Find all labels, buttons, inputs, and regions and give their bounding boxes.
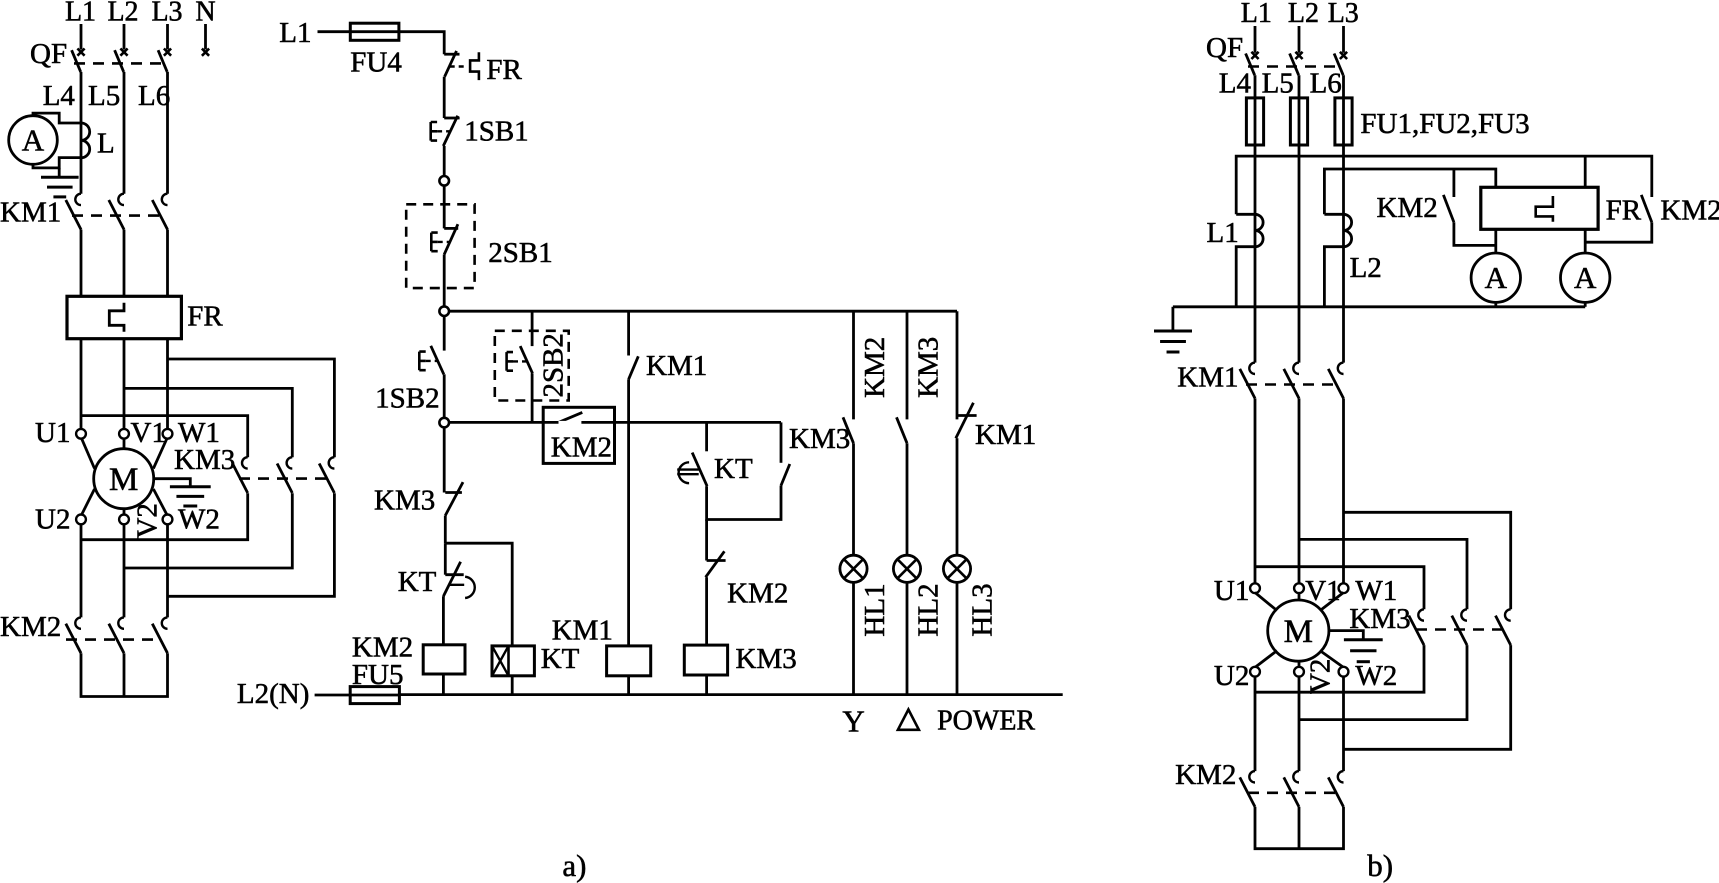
wire bus1 to lamp column 3 [956,311,959,419]
breaker QF pole 2 [120,49,127,56]
svg-text:KM2: KM2 [1377,192,1438,224]
svg-text:KM2: KM2 [551,432,612,464]
contact KT NC delayed-opening [445,573,463,576]
ground (ammeter circuit) [41,176,79,179]
svg-text:KT: KT [398,566,437,598]
contactor KM2 pole 3 [162,617,168,628]
wire V2 to motor [123,509,126,516]
wire L6 segment [166,72,169,194]
terminal U2 (b) [1250,667,1260,677]
wire V1 to motor (b) [1298,593,1301,601]
wire FR to V1 [123,339,126,430]
wire CT L1 bottom [1236,247,1255,307]
contactor KM1 pole 2 [118,194,124,205]
node terminal below 2SB1 [439,306,449,316]
contact FR NC linkage dashed [450,65,468,67]
coil KM3 [684,645,727,675]
wire KM1 pole1 to U1 (b) [1254,398,1257,584]
svg-text:KM3: KM3 [913,337,945,398]
wire U1 to motor (b) [1255,593,1277,611]
wire CT L2 bottom [1324,247,1343,307]
wire FR contact to 1SB1 [443,77,446,118]
contact KT NC delay bars [448,584,464,586]
svg-text:L3: L3 [151,0,182,28]
svg-text:b): b) [1367,848,1393,883]
control bus 2 [449,421,781,424]
svg-text:Y: Y [842,704,864,739]
wire ammeter 2 to bottom bus [1584,302,1587,306]
contactor KM2 pole 2 [118,617,124,628]
contactor KM3 linkage dashed (b) [1416,628,1506,631]
contact KM2 self-hold gap mask [559,421,582,424]
pushbutton 1SB1 actuator [429,122,432,141]
wire QF to fuse FU3 [1342,75,1345,98]
wire L4 segment [80,72,83,194]
wire 1SB1 to node [443,146,446,176]
svg-text:L1: L1 [1207,217,1239,249]
control bottom bus [399,693,1062,696]
svg-text:U1: U1 [1214,575,1249,607]
contactor KM1 pole 3 (b) [1338,363,1344,374]
contactor KM1 pole 1 [75,194,81,205]
delta symbol [898,710,919,730]
wire U1 branch to KM3 pole1 [81,416,248,458]
svg-text:QF: QF [30,38,67,70]
svg-text:A: A [1574,260,1597,295]
svg-text:N: N [195,0,215,28]
svg-text:1SB1: 1SB1 [464,116,528,148]
wire KM1 coil to bus [627,676,630,695]
wire bus1 T to FR box [1584,156,1587,187]
ammeter A2 (b) [1561,253,1610,302]
svg-text:V1: V1 [131,417,166,449]
breaker QF pole N x-mark [202,49,209,56]
svg-text:L1: L1 [1241,0,1272,29]
svg-text:KM1: KM1 [646,350,707,382]
measurement bottom bus (b) [1173,305,1585,308]
svg-text:a): a) [562,848,586,883]
wire node2 to 1SB2 [443,316,446,351]
wire KM2 left to ammeter1 wire [1454,222,1496,245]
wire KM2 star point [81,653,168,696]
breaker QF linkage dashed (b) [1248,65,1338,68]
contact FR NC (control) [444,53,459,56]
wire W1 to motor (b) [1320,593,1344,611]
svg-text:KM1: KM1 [1177,362,1238,394]
wire KM2 right to ammeter2 wire [1585,222,1652,242]
contactor KM1 pole 3 [162,194,168,205]
wire L2 into QF (b) [1298,26,1301,53]
wire KM1 contact to coil [627,379,630,646]
wire 2SB2 to bus2 [531,373,534,422]
pushbutton 1SB1 NC [444,117,459,120]
wire CT L2 top [1324,213,1343,216]
wire bus1 to 2SB2 [531,311,534,346]
pushbutton 2SB2 actuator [505,352,508,371]
wire contact to lamp HL3 [956,438,959,555]
wire KM3 pole2 to V2 line [124,493,292,568]
svg-text:HL2: HL2 [913,583,945,636]
CT L1 winding (b) [1255,214,1263,246]
wire U2 to motor [82,489,95,515]
contact KM2 NO (lamp column 1) [843,417,854,443]
wire terminal row2 to KM2 pole 1 (b) [1254,676,1257,771]
svg-text:KM2: KM2 [1660,195,1719,227]
wire bus1 to lamp column 2 [906,311,909,419]
contact KM2 bypass right NO [1641,195,1652,222]
wire bus2 corner to KM3 NO [780,422,783,462]
pushbutton 2SB2 NO contact [520,346,532,373]
contact KM3 NO (mid) [781,464,790,486]
wire lamp HL3 to bottom bus [956,582,959,694]
control bus 1 [449,310,957,313]
contactor KM2 pole 1 (b) [1249,771,1255,782]
contactor KM3 linkage dashed [239,477,330,480]
ammeter A1 (b) [1471,253,1520,302]
contact KT NO delayed-closing [692,453,707,487]
wire U2 to KM2 pole1 [80,524,83,618]
contact KT NO delay bars [677,470,699,475]
wire contact to lamp HL1 [852,443,855,555]
wire terminal row2 to KM2 pole 3 (b) [1342,676,1345,771]
wire U1 branch to KM3 pole1 (b) [1255,567,1424,610]
wire ammeter 1 to bottom bus [1494,302,1497,306]
svg-text:FR: FR [486,54,522,86]
svg-text:KM2: KM2 [727,578,788,610]
wire KM2 star bar mid (b) [1298,807,1301,849]
wire V1 branch to KM3 pole2 (b) [1299,539,1467,609]
wire KM2 NC to KM3 coil [705,577,708,645]
pushbutton 1SB2 actuator [418,352,421,371]
wire 2SB1 to node2 [443,254,446,306]
svg-text:HL1: HL1 [859,583,891,636]
wire KM2 coil to bus [442,674,445,695]
wire fuse FU2 to KM1 (b) [1298,145,1301,363]
wire KM3 pole3 to W2 line [168,493,335,596]
svg-text:L3: L3 [1328,0,1359,29]
breaker QF linkage dashed [74,62,165,65]
wire KM1 pole3 to W1 (b) [1342,398,1345,584]
indicator lamp HL1 [840,555,867,582]
svg-text:M: M [109,462,138,498]
wire KM2 star point (b) [1255,807,1344,849]
svg-text:KT: KT [714,453,753,485]
contact KM1 NO (control) [629,356,639,379]
svg-text:U1: U1 [35,417,70,449]
svg-text:L4: L4 [43,80,76,112]
indicator lamp HL3 [943,555,970,582]
svg-text:L5: L5 [1262,68,1294,100]
contact KT NC delay cup [465,577,475,598]
breaker QF pole 3 [164,49,171,56]
svg-text:L2: L2 [107,0,138,28]
wire FR to U1 [80,339,83,430]
fuse FU1 [1254,98,1257,145]
contactor KM1 linkage dashed [72,214,161,217]
svg-text:L2: L2 [1288,0,1319,29]
contact KM2 NC (mid) [707,559,726,562]
wire bus2 to KM2 left [1453,169,1456,197]
terminal W2 [163,515,173,525]
terminal V1 (b) [1294,583,1304,593]
svg-text:KM2: KM2 [859,337,891,398]
coil KT [492,646,534,676]
measurement bus 1 (b) [1236,156,1652,214]
svg-text:KM2: KM2 [0,611,61,643]
wire KM3 pole1 to U2 line [81,493,248,539]
wire QF to fuse FU2 [1298,75,1301,98]
wire KM3 pole1 to U2 (b) [1255,645,1424,692]
svg-text:1SB2: 1SB2 [375,383,439,415]
wire motor frame to ground (b) [1329,631,1363,640]
svg-text:V2: V2 [1305,659,1337,694]
svg-text:L6: L6 [1310,68,1342,100]
wire V1 to motor [123,438,126,449]
wire branch to KT coil column [445,543,512,646]
svg-text:L2(N): L2(N) [237,678,309,710]
wire FR box to ammeter 2 [1584,229,1587,253]
svg-text:KT: KT [541,643,580,675]
terminal U2 [76,515,86,525]
wire KM2 star bar mid [123,653,126,696]
wire FR box to ammeter 1 [1494,229,1497,253]
wire KM1 pole1 to FR [80,230,83,297]
wire FU4 to FR contact [399,32,444,55]
svg-text:W2: W2 [1355,660,1397,692]
contactor KM3 pole 2 [287,457,293,468]
svg-text:L2: L2 [1350,252,1382,284]
wire KM1 pole3 to FR [166,230,169,297]
wire terminal row2 to KM2 pole 2 (b) [1298,676,1301,771]
svg-text:L: L [97,128,115,160]
svg-text:KM1: KM1 [552,615,613,647]
motor M (b) [1268,600,1329,661]
pushbutton 2SB1 NC contact [444,227,458,230]
breaker QF pole 1 (b) [1251,52,1258,59]
wire CT L1 top [1236,213,1255,216]
contactor KM3 pole 1 [242,457,248,468]
wire V1 branch to KM3 pole2 [124,388,292,457]
svg-text:L6: L6 [138,80,170,112]
wire node3 to KM3 NC [443,427,446,492]
contactor KM2 pole 1 [75,617,81,628]
wire bus2 to KT NO [705,422,708,451]
svg-text:A: A [1485,260,1508,295]
wire KM3 pole2 to V2 (b) [1299,645,1467,720]
svg-text:L4: L4 [1219,68,1252,100]
coil KM1 [607,646,651,676]
wire L3 into QF (b) [1342,26,1345,53]
wire fuse FU1 to KM1 (b) [1254,145,1257,363]
breaker QF pole 2 (b) [1295,52,1302,59]
contactor KM1 pole 1 (b) [1249,363,1255,374]
contact KM3 NC (left col) [445,491,462,494]
wire lamp HL1 to bottom bus [852,582,855,694]
wire bus to ground (b) [1172,307,1175,331]
svg-text:L5: L5 [88,80,120,112]
breaker QF pole 3 (b) [1340,52,1347,59]
svg-text:A: A [22,123,45,158]
svg-text:POWER: POWER [937,706,1035,737]
wire L2(N) to FU5 [315,694,351,697]
thermal relay FR heater symbol (a) [109,303,124,332]
wire 1SB2 to node3 [443,374,446,418]
contact KT NO delay cup [679,462,689,483]
svg-text:V2: V2 [132,503,164,538]
wire L1 into QF [80,24,83,50]
wire L3 into QF [166,24,169,50]
wire KM1 pole2 to FR [123,230,126,297]
thermal relay FR box (a) [67,296,181,338]
wire W1 branch to KM3 pole3 (b) [1344,512,1511,609]
terminal W1 [163,429,173,439]
pushbutton 2SB1 dashed enclosure [406,204,474,288]
svg-text:L1: L1 [65,0,96,28]
contact KM1 NC (lamp column 3) [957,414,977,417]
svg-text:L1: L1 [279,17,311,49]
contactor KM2 linkage dashed (b) [1248,791,1338,794]
svg-text:KM3: KM3 [736,643,797,675]
svg-text:KM1: KM1 [975,419,1036,451]
svg-text:KM3: KM3 [174,444,235,476]
svg-text:FR: FR [1606,195,1642,227]
fuse FU2 [1298,98,1301,145]
svg-text:W2: W2 [178,504,220,536]
node terminal below 1SB2 [439,418,449,428]
svg-text:KM1: KM1 [0,197,61,229]
terminal V1 [119,429,129,439]
svg-text:U2: U2 [35,504,70,536]
wire W2 to motor [153,489,167,515]
terminal V2 [119,515,129,525]
contactor KM3 pole 3 [329,457,335,468]
measurement bus 2 (b) [1324,169,1495,214]
coil KT divider and cross [507,646,510,676]
contact KM2 self-hold box [543,407,614,463]
coil KM2 [423,645,465,674]
thermal relay FR box (b) [1481,187,1598,229]
wire KM3 pole3 to W2 (b) [1344,645,1511,749]
ground (motor frame a) [170,485,211,488]
svg-text:KM3: KM3 [1349,603,1410,635]
svg-text:2SB1: 2SB1 [488,237,552,269]
thermal relay FR trip symbol [470,52,479,80]
wire fuse FU3 to KM1 (b) [1342,145,1345,363]
wire motor frame to ground [154,479,191,487]
svg-text:FU4: FU4 [350,47,402,79]
contact KM2 bypass left NO [1443,195,1454,222]
wire contact to lamp HL2 [906,443,909,555]
contactor KM2 pole 3 (b) [1338,771,1344,782]
wire ammeter bottom to CT [33,158,81,168]
fuse FU3 [1342,98,1345,145]
wire W1 branch to KM3 pole3 [168,359,335,457]
wire W2 to KM2 pole3 [166,524,169,618]
pushbutton 2SB1 actuator [430,233,433,252]
indicator lamp HL2 [893,555,920,582]
svg-text:FR: FR [187,301,223,333]
contact KM3 NO (lamp column 2) [897,417,908,443]
terminal V2 (b) [1294,667,1304,677]
wire N stub [204,24,207,50]
terminal U1 (b) [1250,583,1260,593]
wire KT NC to KM2 coil [442,596,445,645]
ground (motor frame b) [1344,638,1383,641]
contactor KM3 pole 2 (b) [1461,609,1467,620]
wire ammeter top to CT [33,113,81,123]
wire KM3 NC to branch [444,516,447,544]
svg-text:KM3: KM3 [789,423,850,455]
contactor KM3 pole 1 (b) [1418,609,1424,620]
pushbutton 1SB2 NO contact [431,346,444,375]
svg-text:M: M [1284,614,1313,650]
wire bus1 to lamp column 1 [852,311,855,419]
contact KM2 self-hold NO [559,412,583,422]
svg-text:KM2: KM2 [1175,759,1236,791]
motor M (a) [94,449,154,509]
wire KT coil to bus [511,676,514,695]
wire L2 into QF [123,24,126,50]
wire KM1 pole2 to V1 (b) [1298,398,1301,584]
wire W1 to motor [153,439,167,469]
terminal W1 (b) [1339,583,1349,593]
breaker QF pole 1 [77,49,84,56]
contactor KM2 pole 2 (b) [1293,771,1299,782]
svg-text:HL3: HL3 [967,583,999,636]
node terminal above 2SB1 [439,176,449,186]
wire L5 segment [123,72,126,194]
terminal W2 (b) [1339,667,1349,677]
pushbutton 2SB2 dashed enclosure [495,331,569,401]
ground (b) [1154,330,1192,333]
wire QF to fuse FU1 [1254,75,1257,98]
contactor KM2 linkage dashed [66,638,161,641]
svg-text:U2: U2 [1214,660,1249,692]
wire L1 into QF (b) [1254,26,1257,53]
wire W2 to motor (b) [1320,651,1344,668]
wire U2 to motor (b) [1255,651,1277,668]
contactor KM1 pole 2 (b) [1293,363,1299,374]
svg-text:KM3: KM3 [374,485,435,517]
ammeter A (a) [9,116,58,165]
svg-text:QF: QF [1206,32,1243,64]
wire KM3 coil to bus [705,675,708,695]
wire FR to W1 [166,339,169,430]
terminal U1 [76,429,86,439]
wire CT to ground [58,168,61,177]
CT secondary winding L (a) [81,123,90,158]
wire bus1 to KM1 contact [627,311,630,355]
thermal relay FR heater symbol (b) [1536,196,1553,222]
wire L1 to FU4 [318,30,351,33]
wire branch to KT NC [444,543,447,575]
wire node to 2SB1 box [443,186,446,229]
contactor KM1 linkage dashed (b) [1246,383,1335,386]
svg-text:2SB2: 2SB2 [538,333,570,397]
fuse FU4 [350,30,399,33]
contactor KM3 pole 3 (b) [1505,609,1511,620]
wire join to KM2 NC [705,520,708,561]
wire V2 to motor (b) [1298,661,1301,667]
fuse FU5 [350,694,399,697]
wire KT/KM3 parallel join [707,486,781,520]
wire lamp HL2 to bottom bus [906,582,909,694]
svg-text:FU1,FU2,FU3: FU1,FU2,FU3 [1360,108,1529,140]
CT L2 winding (b) [1344,214,1352,246]
wire V2 to KM2 pole2 [123,524,126,618]
wire U1 to motor [82,439,95,469]
